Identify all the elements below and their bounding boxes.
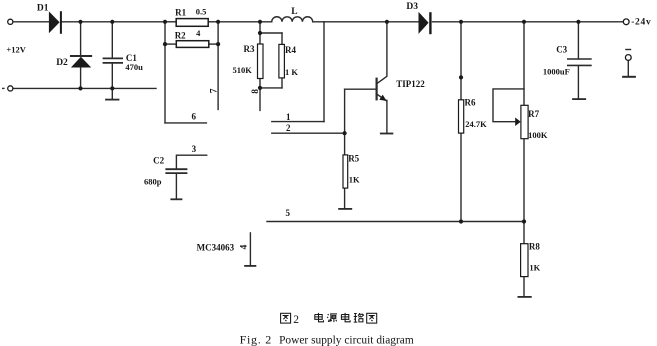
svg-text:24.7K: 24.7K [465, 119, 487, 129]
svg-text:1 K: 1 K [285, 67, 298, 77]
svg-text:+12V: +12V [6, 45, 26, 55]
svg-text:7: 7 [209, 88, 219, 93]
svg-text:100K: 100K [528, 130, 548, 140]
svg-text:470u: 470u [125, 62, 143, 72]
svg-text:-24v: -24v [631, 18, 651, 28]
svg-text:1000uF: 1000uF [543, 67, 570, 77]
svg-text:2: 2 [286, 123, 291, 133]
svg-text:510K: 510K [233, 65, 253, 75]
svg-text:6: 6 [192, 112, 197, 122]
svg-text:R8: R8 [529, 242, 540, 252]
svg-text:MC34063: MC34063 [197, 242, 235, 252]
svg-text:C3: C3 [556, 45, 567, 55]
svg-text:4: 4 [196, 28, 201, 38]
svg-text:R6: R6 [465, 98, 476, 108]
svg-text:1: 1 [286, 112, 291, 122]
svg-text:D1: D1 [37, 3, 49, 13]
svg-text:680p: 680p [144, 177, 162, 187]
svg-text:R7: R7 [528, 109, 539, 119]
svg-text:Fig. 2: Fig. 2 [240, 332, 272, 346]
svg-text:R3: R3 [244, 44, 255, 54]
svg-text:4: 4 [240, 245, 250, 250]
svg-text:R1: R1 [175, 8, 186, 18]
svg-text:5: 5 [286, 208, 291, 218]
svg-text:L: L [291, 7, 297, 17]
svg-text:Power supply circuit diagram: Power supply circuit diagram [279, 332, 414, 346]
svg-text:D2: D2 [56, 58, 68, 68]
svg-text:8: 8 [251, 89, 261, 94]
svg-text:1K: 1K [349, 175, 360, 185]
svg-text:2: 2 [293, 314, 299, 326]
svg-text:0.5: 0.5 [196, 7, 207, 17]
svg-text:1K: 1K [529, 262, 540, 272]
svg-text:3: 3 [192, 144, 197, 154]
svg-text:R2: R2 [175, 31, 186, 41]
svg-text:TIP122: TIP122 [396, 79, 425, 89]
svg-text:R4: R4 [285, 45, 296, 55]
svg-text:D3: D3 [406, 2, 418, 12]
svg-text:C2: C2 [153, 155, 164, 165]
svg-text:R5: R5 [348, 153, 359, 163]
